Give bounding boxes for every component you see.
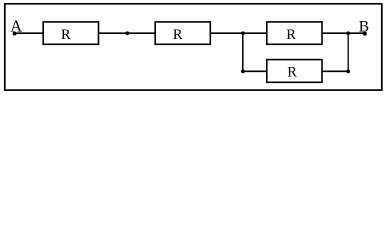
wire (242, 33, 244, 71)
node A (10, 17, 22, 36)
node junction bottom right (346, 70, 350, 74)
wire (15, 32, 44, 34)
node junction (125, 31, 129, 35)
node junction bottom left (241, 70, 245, 74)
svg-text:R: R (173, 27, 183, 43)
resistor R4 (267, 60, 322, 83)
wire (99, 32, 156, 34)
wire (347, 33, 349, 71)
svg-text:R: R (61, 27, 71, 43)
node junction left split (241, 31, 245, 35)
wire (210, 32, 266, 34)
resistor R2 (155, 22, 210, 44)
svg-text:R: R (286, 27, 296, 43)
node B (359, 18, 369, 35)
node junction right split (346, 31, 350, 35)
resistor R1 (43, 22, 98, 44)
svg-text:R: R (287, 64, 297, 80)
wire (322, 32, 365, 34)
wire (243, 70, 267, 72)
wire (322, 70, 348, 72)
resistor R3 (267, 22, 322, 44)
